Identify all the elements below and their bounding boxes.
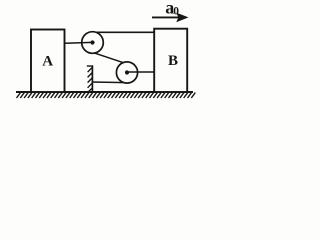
svg-text:A: A — [42, 53, 53, 69]
svg-text:0: 0 — [173, 6, 179, 18]
svg-text:B: B — [168, 53, 178, 69]
wire rope pulley P2 axle to block B — [127, 71, 155, 73]
pulley P2 (lower) — [116, 62, 137, 83]
wire rope pulley P1 top to block B — [91, 31, 154, 33]
ground — [16, 92, 195, 98]
block B — [154, 29, 187, 92]
wire rope A to pulley P1 axle — [65, 41, 93, 44]
wire rope post to pulley P2 bottom — [92, 81, 126, 84]
block A — [31, 30, 65, 93]
post (hatched fixed support) — [87, 66, 93, 93]
pulley P1 (upper) — [82, 32, 104, 54]
acceleration arrow a0 — [152, 0, 189, 22]
wire rope tangent pulley P1 bottom to pulley P2 top — [95, 53, 125, 63]
